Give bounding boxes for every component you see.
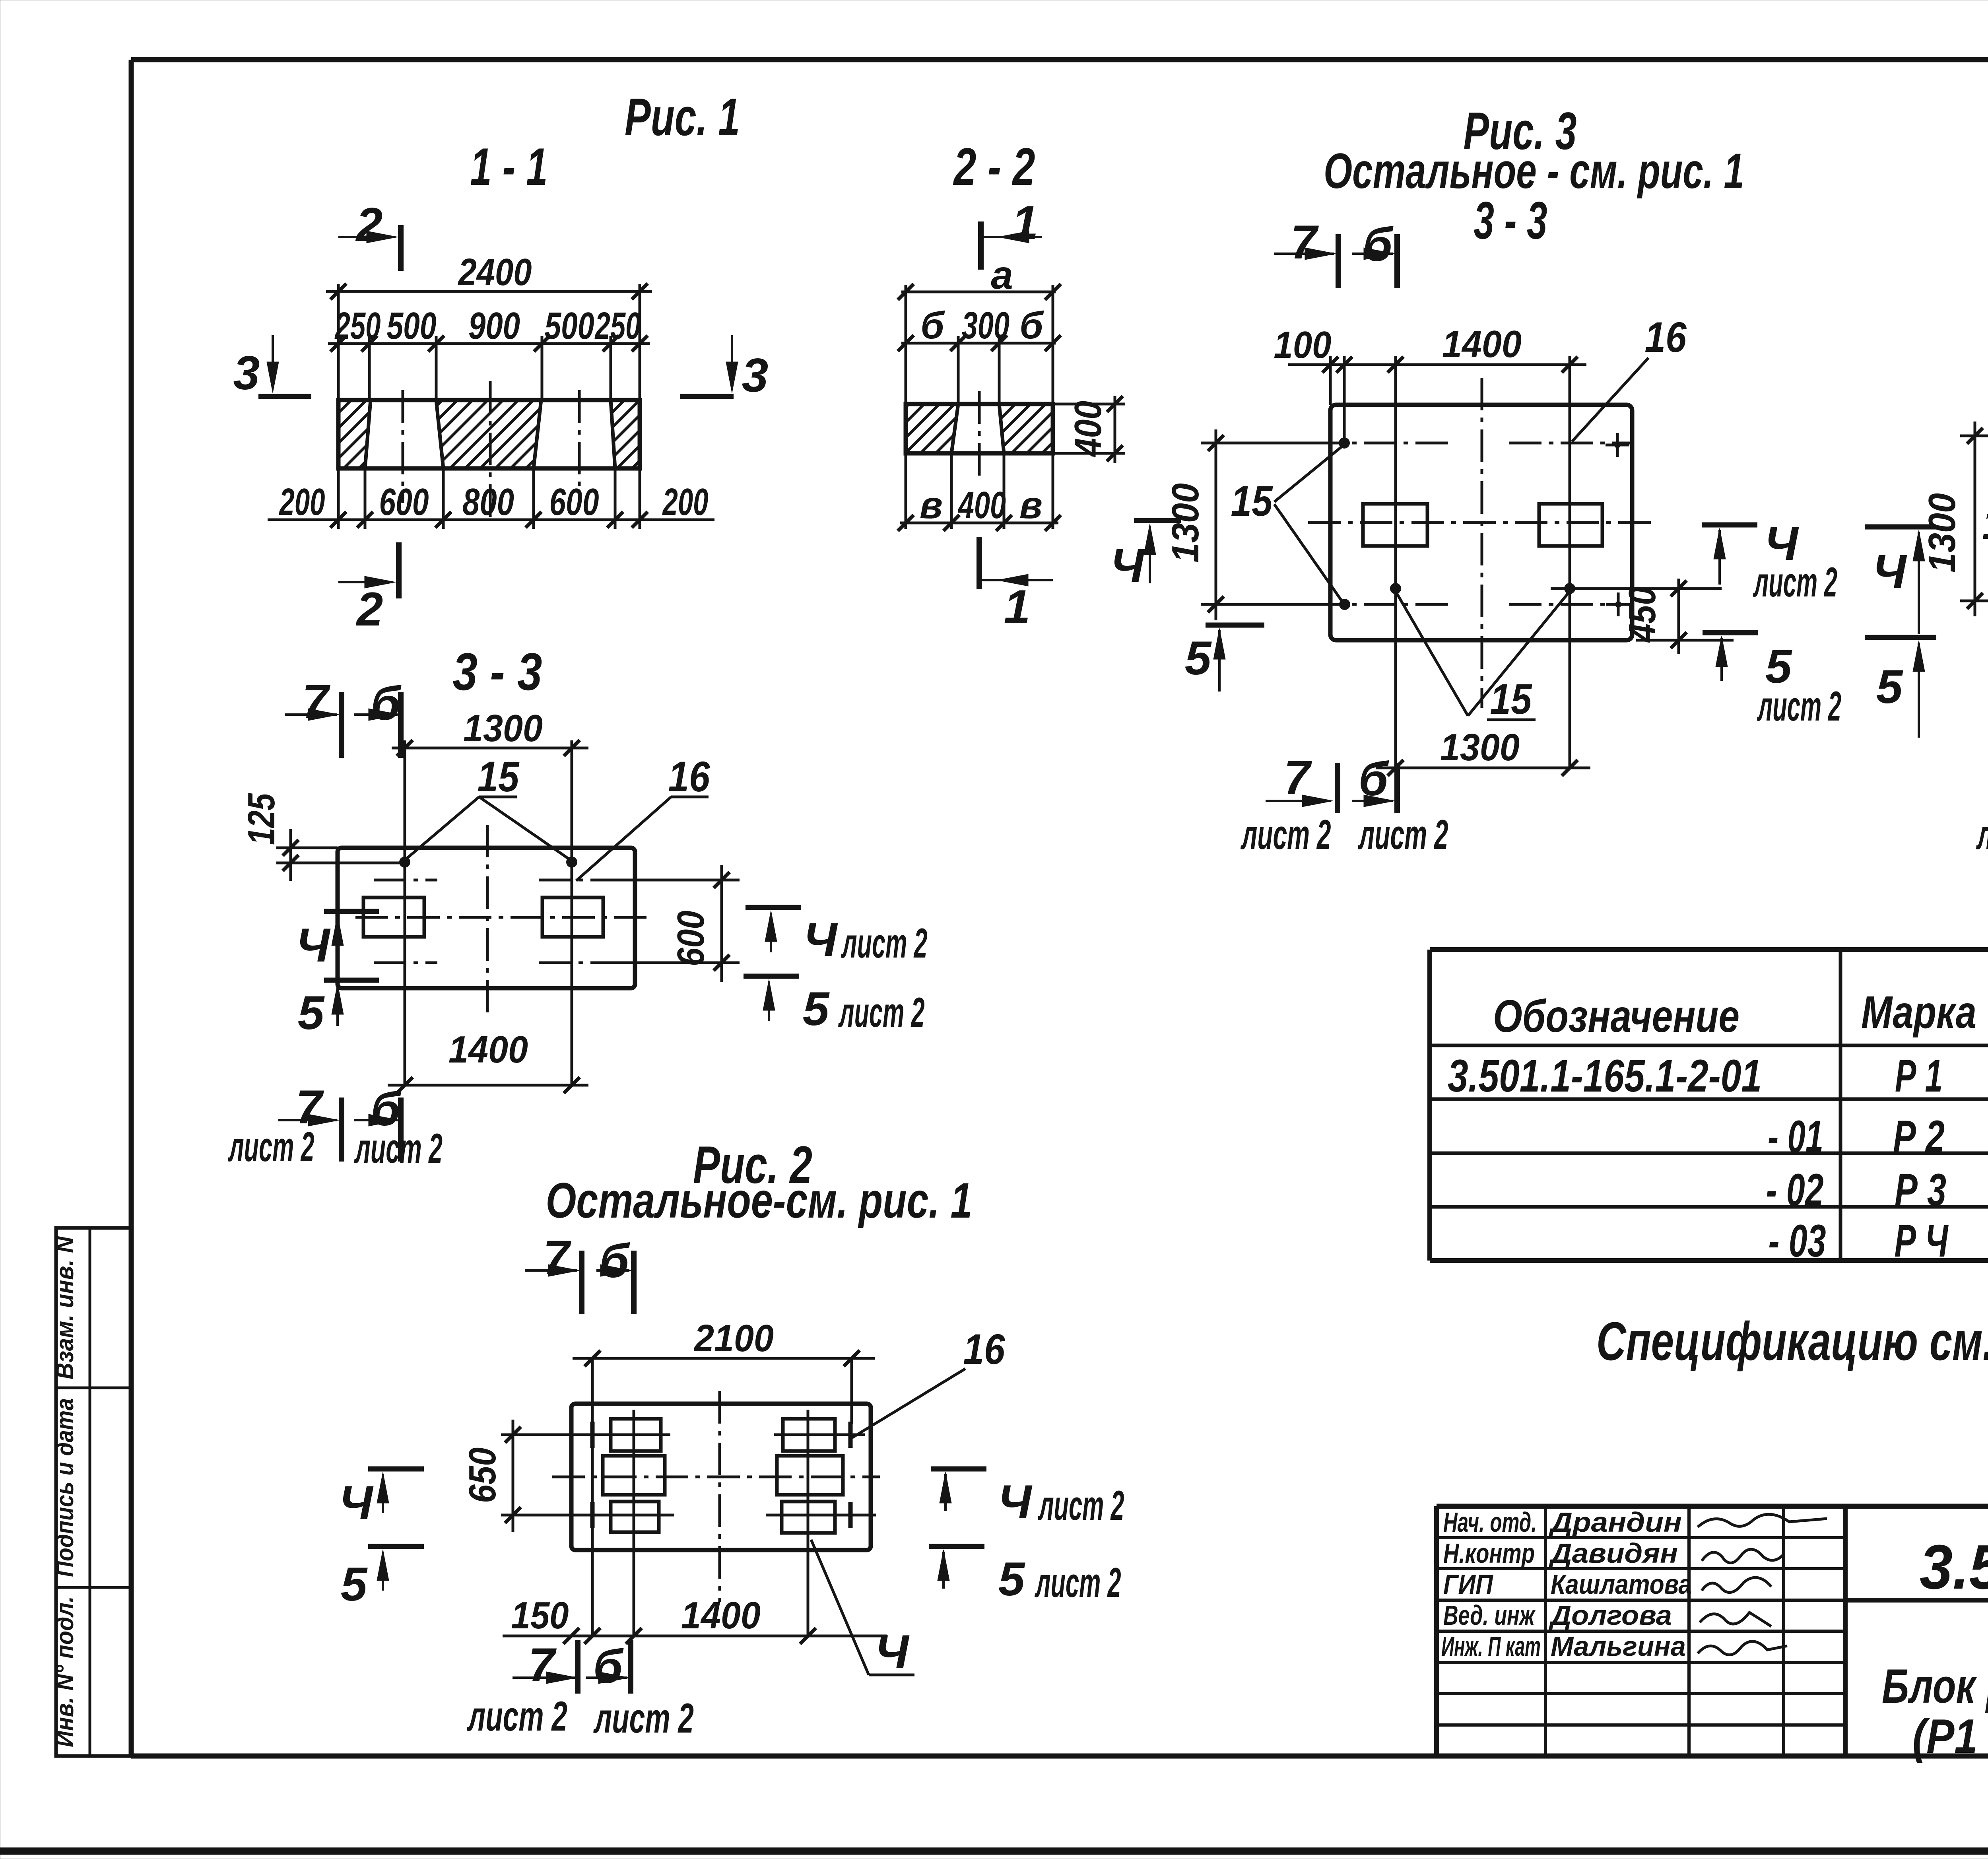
fig3 left marker 5: [1206, 623, 1264, 628]
svg-text:150: 150: [511, 1594, 569, 1637]
sec22 hatched parts: [906, 404, 958, 453]
fig3 block outline: [1330, 405, 1632, 640]
title block frame: [1437, 1504, 1988, 1509]
fig2 anchor marks: [590, 1422, 595, 1448]
svg-text:Марка: Марка: [1861, 987, 1976, 1038]
svg-text:5: 5: [1876, 660, 1904, 713]
svg-text:16: 16: [1645, 313, 1687, 361]
fig2 bottom dims 150 1400: [503, 1635, 887, 1638]
fig1 plan right dim 600: [600, 879, 740, 882]
svg-text:1400: 1400: [1442, 323, 1522, 365]
svg-text:15: 15: [1231, 477, 1274, 525]
svg-text:б: б: [593, 1640, 624, 1693]
fig2 left marker 4: [368, 1467, 424, 1472]
fig2 right marker 5 list2: [929, 1544, 984, 1549]
svg-text:Подпись и дата: Подпись и дата: [51, 1398, 79, 1577]
svg-text:2 - 2: 2 - 2: [953, 138, 1035, 196]
svg-text:Рис. 1: Рис. 1: [625, 88, 740, 147]
fig3 center axes: [1308, 521, 1654, 524]
fig3 top dims 100 1400: [1288, 363, 1586, 366]
sheet frame and borders: [0, 1847, 1988, 1855]
svg-text:Долгова: Долгова: [1549, 1600, 1672, 1631]
svg-text:3: 3: [742, 349, 769, 402]
svg-text:600: 600: [379, 481, 429, 523]
svg-text:ГИП: ГИП: [1443, 1569, 1493, 1600]
svg-text:1400: 1400: [448, 1028, 528, 1071]
svg-text:2100: 2100: [693, 1317, 774, 1360]
fig3 anchor dots 15: [1339, 437, 1350, 449]
svg-text:400: 400: [1067, 401, 1109, 457]
fig1 cut marker 3 right: [680, 394, 734, 399]
svg-text:200: 200: [662, 481, 708, 523]
svg-text:Давидян: Давидян: [1549, 1538, 1678, 1569]
sec22 dims b 300 b: [901, 342, 1056, 345]
svg-text:2: 2: [355, 198, 383, 251]
fig3 bottom dim 1300: [1376, 767, 1590, 769]
svg-text:Ч: Ч: [1110, 539, 1145, 592]
svg-text:3 - 3: 3 - 3: [453, 643, 542, 701]
fig1 bottom dims 200 600 800 600 200: [268, 519, 714, 521]
svg-text:Спецификацию см. лист 3.: Спецификацию см. лист 3.: [1596, 1311, 1988, 1372]
svg-text:3.501.1-165.1-2-01: 3.501.1-165.1-2-01: [1920, 1532, 1988, 1602]
svg-text:лист 2: лист 2: [228, 1124, 315, 1170]
fig1 plan axes vertical: [404, 740, 406, 1085]
svg-text:5: 5: [1185, 631, 1212, 685]
fig1 hatched bearing pads: [338, 400, 371, 468]
sec22 extension lines: [905, 285, 907, 404]
fig3 right marker 5 list2: [1703, 630, 1758, 635]
fig2 left dim 650: [512, 1420, 514, 1532]
svg-text:лист 2: лист 2: [1035, 1560, 1121, 1606]
fig1 plan dim 1300: [392, 747, 588, 750]
fig2 center axes: [552, 1476, 880, 1478]
svg-text:лист 2: лист 2: [1240, 812, 1331, 858]
svg-text:16: 16: [963, 1325, 1006, 1373]
sec22 outline: [906, 404, 1053, 453]
svg-text:900: 900: [468, 305, 520, 347]
svg-text:650: 650: [461, 1447, 504, 1503]
fig3 right marker 4 list2: [1702, 523, 1757, 528]
svg-text:800: 800: [462, 481, 514, 523]
svg-text:2400: 2400: [458, 251, 532, 293]
svg-text:3: 3: [233, 346, 260, 400]
svg-text:400: 400: [958, 484, 1006, 526]
svg-text:16: 16: [668, 752, 711, 800]
svg-text:1300: 1300: [1921, 493, 1963, 573]
svg-text:Ч: Ч: [875, 1625, 910, 1678]
svg-text:Н.контр: Н.контр: [1443, 1538, 1535, 1569]
svg-text:б: б: [920, 304, 945, 347]
svg-text:Инж. П кат: Инж. П кат: [1441, 1631, 1541, 1662]
fig3 left marker 4: [1134, 518, 1181, 523]
fig2 block outline: [571, 1404, 871, 1550]
fig2 right marker 4 list2: [931, 1467, 986, 1472]
fig2 left marker 5: [368, 1544, 424, 1549]
svg-text:лист 2: лист 2: [1976, 812, 1988, 858]
svg-text:б: б: [1019, 304, 1044, 347]
svg-text:7: 7: [302, 675, 331, 728]
svg-text:б: б: [371, 677, 402, 730]
fig1 beam outline: [338, 400, 640, 468]
fig2 axes vertical: [591, 1358, 594, 1636]
svg-text:Остальное - см. рис. 1: Остальное - см. рис. 1: [1324, 144, 1744, 199]
svg-text:7: 7: [543, 1231, 572, 1284]
fig3 right dim 450: [1551, 587, 1722, 590]
svg-text:1: 1: [1012, 196, 1039, 249]
fig3 left dim 1300: [1201, 442, 1344, 445]
svg-text:1300: 1300: [1440, 726, 1520, 769]
svg-text:3 - 3: 3 - 3: [1474, 191, 1547, 250]
fig3 anchor crosses: [1606, 444, 1629, 447]
svg-text:3.501.1-165.1-2-01: 3.501.1-165.1-2-01: [1448, 1051, 1762, 1101]
fig1 cut marker 2 top: [398, 225, 404, 271]
svg-text:1: 1: [1004, 580, 1031, 633]
svg-text:7: 7: [1291, 216, 1319, 269]
sec22 cut marker 1 bottom: [977, 537, 982, 589]
svg-text:- 02: - 02: [1766, 1165, 1824, 1216]
svg-text:300: 300: [962, 304, 1010, 347]
svg-text:125: 125: [240, 793, 283, 845]
fig3 extension lines top: [1329, 356, 1332, 405]
svg-text:2: 2: [356, 583, 383, 636]
table frame: [1430, 947, 1988, 952]
fig1 plan anchor rows dashdot: [374, 879, 437, 882]
svg-text:Р 3: Р 3: [1895, 1165, 1946, 1216]
fig1 plan anchor dots: [399, 857, 410, 868]
fig4 left dim 1300: [1960, 435, 1988, 437]
svg-text:- 03: - 03: [1769, 1216, 1826, 1267]
fig1 plan openings: [363, 897, 424, 937]
svg-text:Инв. N° подл.: Инв. N° подл.: [51, 1596, 79, 1747]
svg-text:б: б: [1363, 218, 1394, 271]
fig2 dim 2100: [573, 1357, 875, 1360]
svg-text:600: 600: [549, 481, 599, 523]
fig1 plan center axes: [355, 916, 648, 919]
svg-text:Ч: Ч: [804, 913, 839, 966]
fig1 extension lines: [337, 284, 340, 400]
svg-text:5: 5: [803, 982, 830, 1035]
fig3 openings: [1363, 504, 1427, 546]
svg-text:Мальгина: Мальгина: [1551, 1631, 1686, 1662]
svg-text:15: 15: [478, 752, 520, 800]
svg-text:лист 2: лист 2: [354, 1125, 443, 1172]
svg-text:лист 2: лист 2: [838, 989, 925, 1036]
svg-text:Ч: Ч: [1873, 545, 1908, 598]
svg-text:500: 500: [545, 305, 594, 347]
svg-text:лист 2: лист 2: [593, 1695, 694, 1742]
svg-text:Ч: Ч: [998, 1475, 1033, 1529]
svg-text:(Р1 ... РЧ): (Р1 ... РЧ): [1912, 1709, 1988, 1763]
svg-text:Блок ригеля Р: Блок ригеля Р: [1882, 1659, 1988, 1713]
svg-text:в: в: [920, 484, 943, 526]
svg-text:Взам. инв. N: Взам. инв. N: [51, 1236, 79, 1379]
fig3 anchor rows dashdot: [1312, 442, 1455, 445]
svg-text:лист 2: лист 2: [841, 920, 928, 967]
fig1 plan right marker 4 list2: [745, 905, 801, 910]
left attribute strip: [56, 1228, 131, 1756]
svg-text:лист 2: лист 2: [1038, 1482, 1124, 1529]
fig3 right marker 5 second: [1865, 635, 1936, 640]
fig1 dims 250 500 900 500 250: [328, 342, 650, 345]
svg-text:250: 250: [594, 305, 641, 347]
svg-text:100: 100: [1274, 324, 1332, 366]
title block signatures: [1698, 1514, 1827, 1527]
svg-text:лист 2: лист 2: [1357, 812, 1448, 858]
svg-text:200: 200: [279, 481, 325, 523]
fig1 axes: [402, 390, 404, 503]
sec22 dims v 400 v: [900, 522, 1058, 524]
fig1 plan right marker 5 list2: [744, 974, 799, 979]
svg-text:Остальное-см. рис. 1: Остальное-см. рис. 1: [546, 1173, 973, 1228]
fig1 plan dim 125: [276, 847, 338, 849]
svg-text:15: 15: [1982, 500, 1988, 548]
sec22 cut marker 1 top: [978, 221, 984, 270]
svg-text:5: 5: [341, 1558, 368, 1611]
sec22 right dim 400: [1053, 403, 1125, 406]
fig2 openings right group: [783, 1419, 835, 1451]
sec22 axis: [978, 391, 981, 476]
svg-text:Обозначение: Обозначение: [1493, 991, 1739, 1042]
svg-text:500: 500: [387, 305, 437, 347]
fig3 right marker 4 second: [1865, 524, 1936, 530]
svg-text:б: б: [600, 1234, 630, 1288]
svg-text:5: 5: [998, 1552, 1026, 1606]
svg-text:5: 5: [298, 986, 325, 1039]
svg-text:Р 1: Р 1: [1895, 1051, 1943, 1101]
fig1 plan left marker 4: [324, 909, 379, 914]
fig1 plan bottom dim 1400: [388, 1084, 588, 1087]
svg-text:Кашлатова: Кашлатова: [1551, 1569, 1692, 1600]
svg-text:7: 7: [528, 1638, 557, 1692]
svg-text:1300: 1300: [463, 707, 543, 750]
fig2 row lines: [501, 1434, 670, 1436]
fig1 dim 2400: [326, 290, 652, 293]
svg-text:Ч: Ч: [339, 1476, 374, 1529]
svg-text:1 - 1: 1 - 1: [470, 138, 548, 196]
svg-text:Вед. инж: Вед. инж: [1443, 1600, 1536, 1631]
svg-text:1400: 1400: [681, 1594, 761, 1637]
svg-text:лист 2: лист 2: [467, 1693, 567, 1740]
fig1 plan left marker 5: [324, 978, 379, 983]
fig1 plan block outline: [338, 848, 635, 988]
svg-text:в: в: [1019, 484, 1043, 526]
svg-text:Нач. отд.: Нач. отд.: [1443, 1507, 1537, 1538]
svg-text:Р Ч: Р Ч: [1895, 1216, 1949, 1267]
fig1 cut marker 2 bottom: [396, 542, 402, 598]
svg-text:лист 2: лист 2: [1757, 683, 1841, 730]
fig2 openings left group: [611, 1419, 661, 1451]
svg-text:лист 2: лист 2: [1753, 559, 1837, 606]
svg-text:Р 2: Р 2: [1893, 1111, 1945, 1162]
svg-text:- 01: - 01: [1768, 1111, 1823, 1162]
svg-text:Ч: Ч: [296, 919, 331, 972]
svg-text:600: 600: [670, 911, 712, 966]
svg-text:Драндин: Драндин: [1549, 1507, 1682, 1538]
svg-text:450: 450: [1621, 587, 1664, 643]
svg-text:250: 250: [334, 305, 381, 347]
